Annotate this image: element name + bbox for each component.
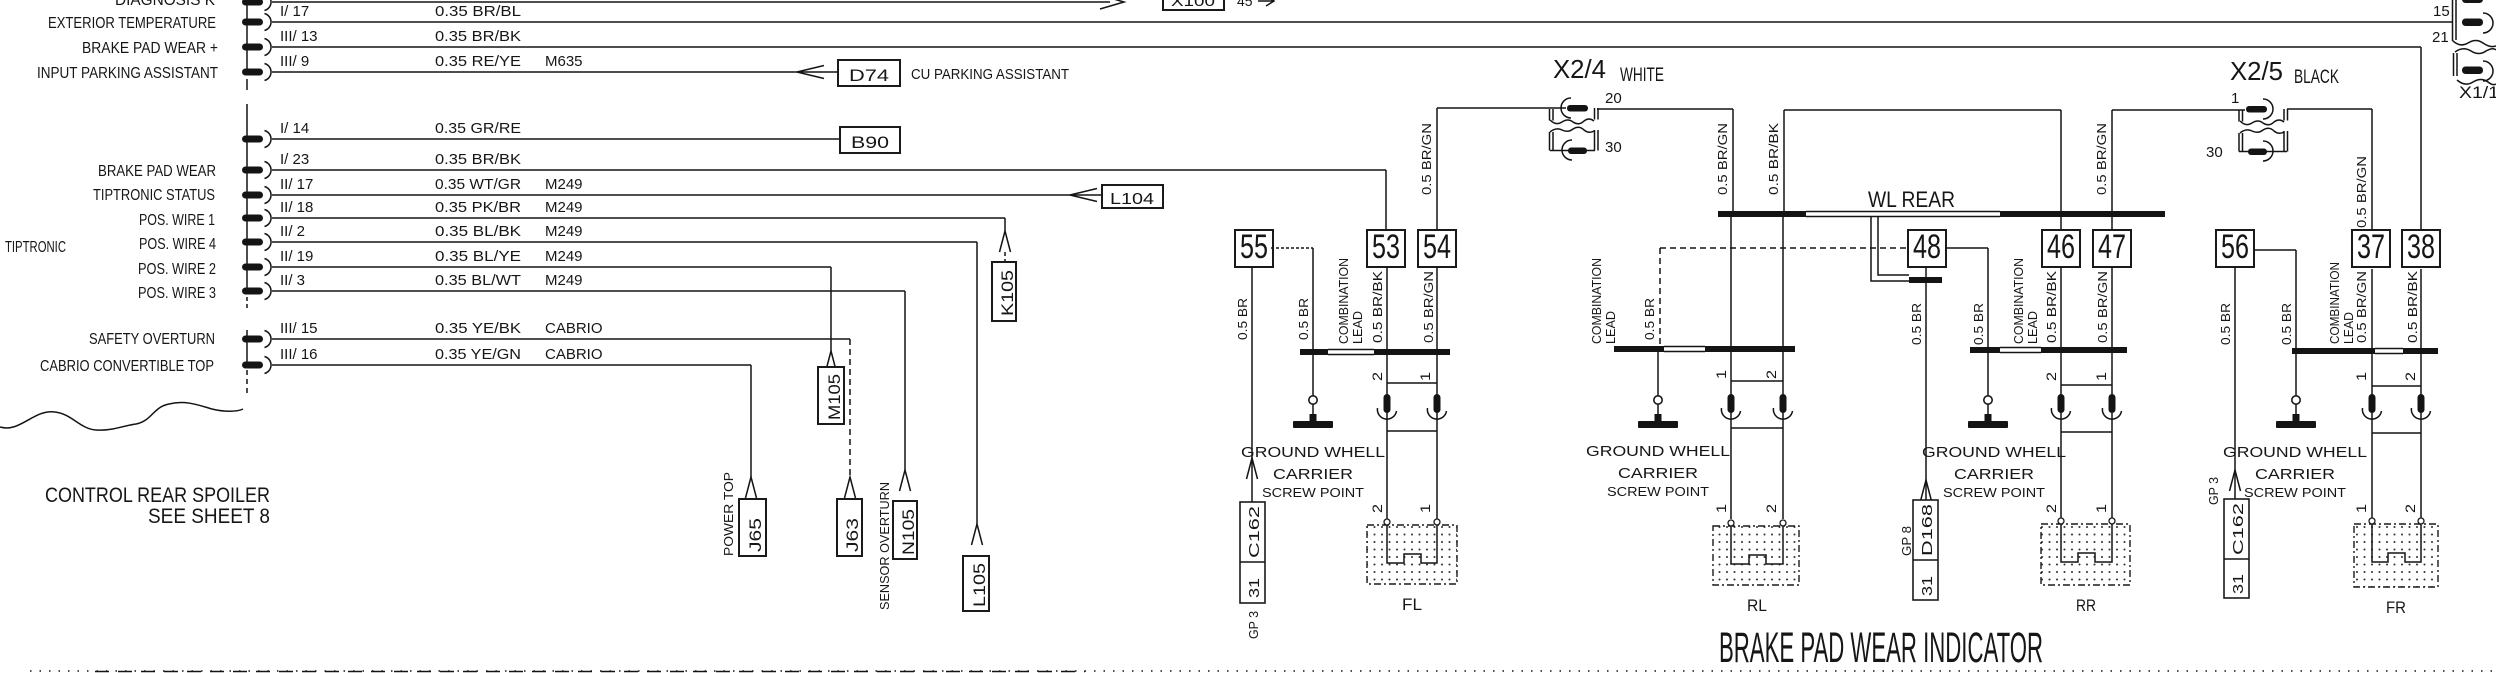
svg-text:II/ 18: II/ 18: [280, 199, 313, 216]
wire 55 to ground: [1271, 247, 1313, 249]
svg-text:COMBINATION: COMBINATION: [2327, 262, 2342, 344]
svg-text:0.5 BR: 0.5 BR: [2218, 303, 2233, 345]
connector box 38: [2402, 230, 2440, 267]
wire 55 to C162: [1251, 267, 1253, 502]
busbar outline drop to 48: [1871, 217, 1909, 281]
wire row5 to box 53: [272, 169, 1386, 171]
splice X100: [1163, 0, 1224, 10]
svg-text:D168: D168: [1919, 504, 1936, 556]
svg-text:FR: FR: [2386, 598, 2406, 617]
svg-text:1: 1: [1417, 504, 1433, 513]
svg-text:LEAD: LEAD: [1350, 311, 1365, 344]
wire 48 left lead: [1660, 247, 1908, 249]
svg-text:21: 21: [2432, 29, 2449, 46]
X1 pin above 15: [2462, 0, 2483, 3]
svg-text:0.5 BR: 0.5 BR: [1642, 298, 1657, 340]
svg-text:0.35 WT/GR: 0.35 WT/GR: [435, 176, 521, 193]
svg-text:FL: FL: [1402, 595, 1422, 614]
wire row0 to X100: [272, 1, 1110, 3]
svg-text:GP 8: GP 8: [1899, 526, 1914, 556]
svg-text:POS. WIRE 4: POS. WIRE 4: [139, 236, 216, 253]
svg-text:1: 1: [2093, 372, 2109, 381]
svg-text:20: 20: [1605, 90, 1622, 107]
connector L104: [1102, 185, 1163, 208]
sensor FL: [1367, 525, 1457, 584]
X1 connector wall: [2452, 0, 2454, 40]
connector box 48: [1908, 230, 1946, 267]
svg-text:CABRIO CONVERTIBLE TOP: CABRIO CONVERTIBLE TOP: [40, 358, 214, 375]
svg-text:31: 31: [2230, 574, 2247, 594]
plug J63: [837, 499, 862, 556]
svg-text:II/ 17: II/ 17: [280, 176, 313, 193]
svg-text:2: 2: [1369, 372, 1385, 381]
ECU pin row7: [242, 215, 263, 222]
svg-text:I/ 23: I/ 23: [280, 151, 309, 168]
ground point D168: [1913, 500, 1938, 600]
ECU pin row12: [242, 362, 263, 369]
wire 48 to D168: [1925, 267, 1927, 277]
wire 56 to ground: [2254, 249, 2296, 251]
svg-text:CU PARKING ASSISTANT: CU PARKING ASSISTANT: [911, 66, 1069, 83]
busbar FL: [1300, 349, 1328, 355]
connector D74: [838, 60, 900, 86]
FL plug 2: [1384, 394, 1391, 413]
svg-text:31: 31: [1246, 578, 1263, 598]
svg-text:M249: M249: [545, 272, 583, 289]
busbar stub under 48: [1909, 277, 1942, 283]
svg-text:CARRIER: CARRIER: [1954, 466, 2034, 483]
svg-text:CABRIO: CABRIO: [545, 320, 603, 337]
svg-text:II/ 2: II/ 2: [280, 223, 305, 240]
svg-text:0.5 BR/BK: 0.5 BR/BK: [2044, 271, 2059, 343]
svg-text:GROUND WHELL: GROUND WHELL: [1922, 444, 2066, 461]
svg-text:INPUT PARKING ASSISTANT: INPUT PARKING ASSISTANT: [37, 65, 218, 82]
wire row10 to N105: [272, 290, 905, 292]
svg-text:55: 55: [1240, 228, 1268, 266]
svg-text:M249: M249: [545, 248, 583, 265]
wire WL REAR to 46: [1783, 110, 1785, 211]
svg-text:LEAD: LEAD: [1603, 311, 1618, 344]
svg-text:X100: X100: [1171, 0, 1215, 10]
svg-text:38: 38: [2407, 228, 2435, 266]
svg-text:SCREW POINT: SCREW POINT: [2244, 485, 2346, 500]
svg-text:1: 1: [1713, 370, 1729, 379]
sheet bottom edge: [30, 670, 2496, 672]
svg-text:CARRIER: CARRIER: [1618, 465, 1698, 482]
svg-text:SCREW POINT: SCREW POINT: [1943, 485, 2045, 500]
ground point C162 FR: [2224, 499, 2249, 598]
svg-text:C162: C162: [1246, 506, 1263, 558]
ECU pin row4: [242, 136, 263, 143]
ECU pin row9: [242, 264, 263, 271]
svg-text:2: 2: [2043, 504, 2059, 513]
svg-text:III/ 15: III/ 15: [280, 320, 318, 337]
svg-text:0.5 BR: 0.5 BR: [1971, 303, 1986, 345]
svg-text:WL REAR: WL REAR: [1868, 187, 1955, 212]
svg-text:TIPTRONIC: TIPTRONIC: [5, 239, 66, 256]
wire row6 to L104: [272, 194, 1102, 196]
svg-text:0.5 BR/GN: 0.5 BR/GN: [1419, 123, 1434, 195]
svg-text:EXTERIOR TEMPERATURE: EXTERIOR TEMPERATURE: [48, 15, 216, 32]
svg-text:0.5 BR/GN: 0.5 BR/GN: [1421, 271, 1436, 343]
svg-text:CABRIO: CABRIO: [545, 346, 603, 363]
svg-text:L105: L105: [970, 563, 989, 607]
ECU connector body edge (torn): [0, 403, 243, 431]
wire row1 to pin 15: [272, 21, 2452, 23]
svg-text:47: 47: [2098, 228, 2126, 266]
connector box 37: [2352, 230, 2390, 267]
connector box 46: [2042, 230, 2080, 267]
svg-text:III/ 16: III/ 16: [280, 346, 318, 363]
FR plug 1: [2369, 394, 2376, 413]
svg-text:POS. WIRE 2: POS. WIRE 2: [138, 261, 216, 278]
svg-text:0.5 BR: 0.5 BR: [2279, 303, 2294, 345]
plug N105: [893, 501, 917, 559]
svg-text:SCREW POINT: SCREW POINT: [1607, 484, 1709, 499]
svg-text:POS. WIRE 1: POS. WIRE 1: [139, 212, 215, 229]
svg-text:SEE SHEET 8: SEE SHEET 8: [148, 505, 270, 528]
svg-text:BRAKE PAD WEAR +: BRAKE PAD WEAR +: [82, 40, 218, 57]
ECU pin row11: [242, 336, 263, 343]
connector box 56: [2216, 230, 2254, 267]
svg-text:0.35 YE/GN: 0.35 YE/GN: [435, 346, 521, 363]
svg-text:M249: M249: [545, 176, 583, 193]
wire 47 to X2/5: [2111, 110, 2113, 230]
svg-text:CARRIER: CARRIER: [1273, 466, 1353, 483]
svg-text:0.35 BL/WT: 0.35 BL/WT: [435, 272, 521, 289]
RL plug 2: [1780, 394, 1787, 413]
svg-text:0.5 BR/GN: 0.5 BR/GN: [1715, 123, 1730, 195]
svg-text:31: 31: [1919, 576, 1936, 596]
svg-text:1: 1: [2353, 372, 2369, 381]
RR plug 2: [2058, 394, 2065, 413]
wire X2/5 to 37: [2287, 108, 2372, 110]
svg-text:0.5 BR: 0.5 BR: [1909, 303, 1924, 345]
svg-text:30: 30: [1605, 139, 1622, 156]
svg-text:RR: RR: [2076, 596, 2096, 615]
svg-text:II/ 19: II/ 19: [280, 248, 313, 265]
ground RR wheel carrier: [1984, 396, 1992, 404]
svg-text:SENSOR OVERTURN: SENSOR OVERTURN: [877, 482, 892, 610]
wire row11 to J63: [272, 338, 850, 340]
svg-text:0.5 BR/BK: 0.5 BR/BK: [1370, 271, 1385, 343]
svg-text:GROUND WHELL: GROUND WHELL: [1586, 443, 1730, 460]
svg-text:0.5 BR: 0.5 BR: [1235, 298, 1250, 340]
wire X2/4 to WL REAR: [1597, 108, 1733, 110]
svg-text:56: 56: [2221, 228, 2249, 266]
ground RL wheel carrier: [1657, 352, 1659, 396]
ECU pin row3: [242, 69, 263, 76]
wire row9 to M105: [272, 266, 831, 268]
ECU pin row0: [242, 0, 263, 6]
svg-text:0.5 BR/GN: 0.5 BR/GN: [2095, 271, 2110, 343]
wire row2 drop to 38: [2420, 47, 2422, 232]
busbar FR: [2292, 348, 2375, 354]
svg-text:1: 1: [1417, 372, 1433, 381]
svg-text:30: 30: [2206, 144, 2223, 161]
ground FL wheel carrier: [1309, 396, 1317, 404]
FL lead wires: [1386, 267, 1388, 519]
sensor RL: [1713, 526, 1799, 585]
svg-text:53: 53: [1372, 228, 1400, 266]
ECU pin row5: [242, 167, 263, 174]
svg-text:GP 3: GP 3: [2206, 477, 2221, 505]
svg-text:LEAD: LEAD: [2025, 311, 2040, 344]
svg-text:J63: J63: [843, 518, 862, 552]
ECU pin row2: [242, 44, 263, 51]
svg-text:45: 45: [1237, 0, 1253, 9]
plug L105: [963, 556, 989, 611]
wire row8 to L105: [272, 241, 977, 243]
svg-text:1: 1: [2093, 504, 2109, 513]
svg-text:2: 2: [1369, 504, 1385, 513]
svg-text:BRAKE PAD WEAR: BRAKE PAD WEAR: [98, 163, 216, 180]
svg-text:CONTROL REAR SPOILER: CONTROL REAR SPOILER: [45, 484, 270, 507]
svg-text:M249: M249: [545, 223, 583, 240]
svg-text:RL: RL: [1747, 596, 1767, 615]
svg-text:SCREW POINT: SCREW POINT: [1262, 485, 1364, 500]
svg-text:J65: J65: [746, 518, 765, 552]
ECU pin row1: [242, 19, 263, 26]
FR lead wires: [2371, 269, 2373, 519]
svg-text:2: 2: [2402, 504, 2418, 513]
svg-text:2: 2: [2402, 372, 2418, 381]
wire row7 to K105: [272, 217, 1005, 219]
svg-text:0.5 BR: 0.5 BR: [1296, 298, 1311, 340]
svg-text:L104: L104: [1110, 191, 1154, 208]
svg-text:15: 15: [2433, 3, 2450, 20]
svg-text:N105: N105: [899, 509, 918, 555]
svg-text:0.35 YE/BK: 0.35 YE/BK: [435, 320, 521, 337]
svg-text:SAFETY OVERTURN: SAFETY OVERTURN: [89, 331, 215, 348]
wire 56 to C162: [2234, 267, 2236, 499]
svg-text:M249: M249: [545, 199, 583, 216]
wire drop to 46: [2060, 110, 2062, 230]
wire row4 to B90: [272, 138, 840, 140]
svg-text:D74: D74: [849, 66, 889, 85]
svg-text:GROUND WHELL: GROUND WHELL: [2223, 444, 2367, 461]
svg-text:COMBINATION: COMBINATION: [1589, 258, 1604, 344]
svg-text:46: 46: [2047, 228, 2075, 266]
svg-text:M105: M105: [825, 374, 844, 420]
svg-text:X2/4: X2/4: [1553, 54, 1606, 84]
svg-text:0.35 BR/BL: 0.35 BR/BL: [435, 3, 521, 20]
sensor RR: [2041, 524, 2130, 585]
connector box 55: [1235, 230, 1273, 267]
svg-text:0.5 BR/GN: 0.5 BR/GN: [2354, 156, 2369, 228]
svg-text:37: 37: [2357, 228, 2385, 266]
wire row2: [272, 46, 2421, 48]
svg-text:0.5 BR/GN: 0.5 BR/GN: [2094, 123, 2109, 195]
svg-text:DIAGNOSIS K: DIAGNOSIS K: [115, 0, 215, 9]
RL plug 1: [1728, 394, 1735, 413]
svg-text:1: 1: [2231, 90, 2239, 107]
svg-text:TIPTRONIC STATUS: TIPTRONIC STATUS: [93, 187, 215, 204]
busbar RR: [1970, 347, 2000, 353]
wire row12 to J65: [272, 364, 751, 366]
svg-text:BRAKE PAD WEAR INDICATOR: BRAKE PAD WEAR INDICATOR: [1719, 624, 2043, 672]
svg-text:0.35 GR/RE: 0.35 GR/RE: [435, 120, 521, 137]
svg-text:1: 1: [2353, 504, 2369, 513]
svg-text:C162: C162: [2230, 503, 2247, 555]
svg-text:2: 2: [1763, 370, 1779, 379]
svg-text:0.35 BL/BK: 0.35 BL/BK: [435, 223, 521, 240]
FL plug 1: [1434, 394, 1441, 413]
ECU pin row8: [242, 239, 263, 246]
svg-text:2: 2: [2043, 372, 2059, 381]
svg-text:0.5 BR/BK: 0.5 BR/BK: [2405, 271, 2420, 343]
svg-text:III/ 13: III/ 13: [280, 28, 318, 45]
svg-text:K105: K105: [998, 270, 1017, 316]
svg-text:GROUND WHELL: GROUND WHELL: [1241, 444, 1385, 461]
ECU pin row6: [242, 192, 263, 199]
svg-text:WHITE: WHITE: [1620, 65, 1664, 86]
wire 48 to RR bus: [1945, 247, 1988, 249]
svg-text:M635: M635: [545, 53, 583, 70]
connector B90: [840, 127, 900, 153]
sensor FR: [2354, 524, 2438, 587]
svg-text:I/ 14: I/ 14: [280, 120, 309, 137]
plug M105: [818, 367, 844, 424]
svg-text:POS. WIRE 3: POS. WIRE 3: [138, 285, 216, 302]
svg-text:B90: B90: [851, 133, 889, 152]
RR lead wires: [2060, 267, 2062, 519]
ground FR wheel carrier: [2292, 396, 2300, 404]
RL lead wires: [1730, 217, 1732, 519]
connector box 47: [2093, 230, 2131, 267]
plug K105: [992, 262, 1016, 321]
arrow into X100: [1100, 0, 1124, 9]
X1 connector wavy edge: [2452, 40, 2496, 47]
ECU connector rail: [246, 0, 248, 73]
svg-text:II/ 3: II/ 3: [280, 272, 305, 289]
svg-text:COMBINATION: COMBINATION: [2011, 258, 2026, 344]
svg-text:POWER TOP: POWER TOP: [721, 472, 736, 556]
svg-text:X1/1: X1/1: [2459, 83, 2496, 102]
wire row3 to D74: [272, 71, 838, 73]
svg-text:0.5 BR/BK: 0.5 BR/BK: [1766, 123, 1781, 195]
svg-text:0.35 BR/BK: 0.35 BR/BK: [435, 151, 521, 168]
RR plug 1: [2109, 394, 2116, 413]
svg-text:X2/5: X2/5: [2230, 56, 2283, 86]
wire box54 to X2/4 pin20: [1436, 108, 1438, 230]
svg-text:48: 48: [1913, 228, 1941, 266]
busbar RL: [1614, 346, 1664, 352]
svg-text:GP 3: GP 3: [1246, 611, 1261, 639]
svg-text:0.35 BR/BK: 0.35 BR/BK: [435, 28, 521, 45]
FR plug 2: [2418, 394, 2425, 413]
connector box 53: [1367, 230, 1405, 267]
svg-text:I/ 17: I/ 17: [280, 3, 309, 20]
connector box 54: [1418, 230, 1456, 267]
svg-text:0.35 RE/YE: 0.35 RE/YE: [435, 53, 521, 70]
ground point C162 FL: [1240, 502, 1265, 603]
svg-text:1: 1: [1713, 504, 1729, 513]
svg-text:COMBINATION: COMBINATION: [1336, 258, 1351, 344]
ECU pin row10: [242, 288, 263, 295]
plug J65: [739, 499, 766, 556]
svg-text:III/ 9: III/ 9: [280, 53, 309, 70]
busbar WL REAR: [1718, 211, 1806, 217]
svg-text:2: 2: [1763, 504, 1779, 513]
svg-text:54: 54: [1423, 228, 1451, 266]
svg-text:0.35 BL/YE: 0.35 BL/YE: [435, 248, 521, 265]
svg-text:CARRIER: CARRIER: [2255, 466, 2335, 483]
svg-text:0.5 BR/GN: 0.5 BR/GN: [2354, 271, 2369, 343]
svg-text:0.35 PK/BR: 0.35 PK/BR: [435, 199, 521, 216]
svg-text:BLACK: BLACK: [2294, 67, 2339, 88]
